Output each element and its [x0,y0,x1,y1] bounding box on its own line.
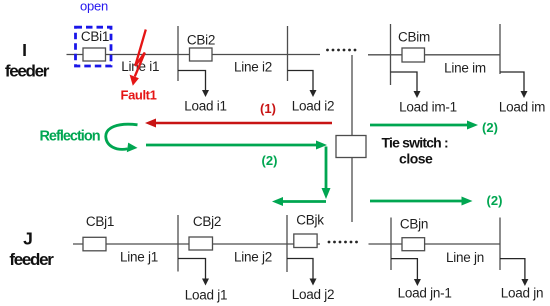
svg-text:Load jn: Load jn [501,286,544,301]
load jn-1 drop [391,259,417,281]
node bus j2 [286,215,288,272]
svg-text:feeder: feeder [9,250,54,269]
svg-text:Load j2: Load j2 [292,287,335,302]
wire: I feeder main line right [368,54,500,56]
load i2 drop [288,71,314,92]
green arrow right bottom (2) [370,200,465,203]
red arrow (1) [153,122,332,125]
wire: I feeder main line left [67,54,321,56]
svg-text:Load im-1: Load im-1 [399,100,457,115]
node bus im [499,24,501,74]
breaker CBj1 [83,237,106,251]
svg-text:(1): (1) [260,101,276,116]
breaker CBi1 [83,48,106,61]
svg-text:CBjk: CBjk [296,213,324,228]
green arrow (2) to tie switch [146,144,320,147]
svg-text:feeder: feeder [5,62,50,81]
load i1 drop [178,71,206,92]
svg-text:CBim: CBim [398,30,430,45]
svg-text:Load im: Load im [499,100,545,115]
svg-text:I: I [22,40,27,60]
tie line lower [351,158,353,223]
reflection loop arrow [106,124,138,149]
svg-text:CBi1: CBi1 [81,29,109,44]
svg-text:(2): (2) [487,193,503,208]
node bus jn-1 [390,218,392,271]
load jn drop [500,259,525,281]
dots feeder J [328,241,358,244]
node bus i1 [177,26,179,81]
svg-text:Line j1: Line j1 [120,250,158,265]
load j1 drop [178,259,206,281]
svg-text:CBi2: CBi2 [187,33,215,48]
breaker CBim [402,48,425,62]
svg-text:J: J [23,229,33,249]
svg-text:Reflection: Reflection [39,129,99,145]
svg-text:Line i2: Line i2 [234,60,272,75]
breaker CBjn [402,238,425,251]
node bus jn [499,218,501,271]
tie line upper [351,55,353,136]
svg-text:Line jn: Line jn [446,250,484,265]
breaker CBj2 [189,237,213,250]
green arrow left into J feeder [280,200,326,203]
svg-text:Line im: Line im [444,61,486,76]
wire: J feeder main line right [369,243,501,245]
svg-text:Load jn-1: Load jn-1 [398,286,452,301]
node bus im-1 [390,24,392,85]
tie switch box [336,136,366,158]
svg-text:Load i2: Load i2 [292,99,335,114]
fault lightning bolt [135,30,146,77]
green arrow down along tie [325,147,328,192]
svg-text:(2): (2) [262,153,278,168]
green arrow right top (2) [370,124,470,127]
svg-text:open: open [80,0,108,14]
svg-text:CBjn: CBjn [400,217,428,232]
svg-text:Line j2: Line j2 [234,250,272,265]
svg-text:Tie switch :: Tie switch : [382,134,449,150]
svg-text:CBj1: CBj1 [86,214,114,229]
load im drop [500,72,524,93]
svg-text:Load j1: Load j1 [185,288,228,303]
load im-1 drop [391,72,418,93]
dots feeder I [326,49,356,52]
svg-text:(2): (2) [482,120,498,135]
svg-text:Fault1: Fault1 [121,88,157,103]
wire: J feeder main line left [73,243,320,245]
svg-text:CBj2: CBj2 [193,214,221,229]
breaker CBjk [294,234,317,248]
node bus j1 [177,215,179,272]
breaker CBi1 open-state dashed box [76,27,112,66]
node bus i2 [287,26,289,81]
load j2 drop [287,259,313,281]
svg-text:Load i1: Load i1 [184,99,227,114]
breaker CBi2 [190,48,213,61]
svg-text:close: close [399,150,433,166]
